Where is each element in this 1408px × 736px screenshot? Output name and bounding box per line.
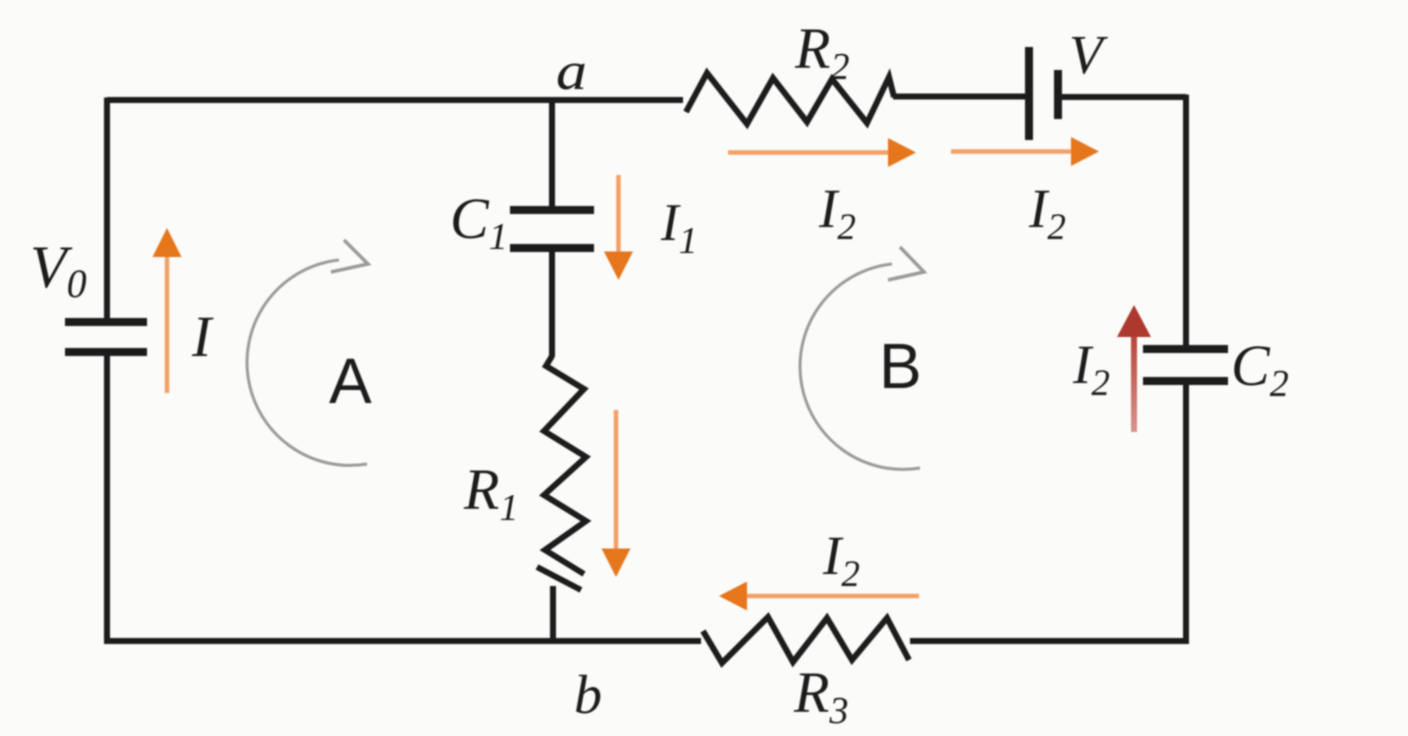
wire middle branch between C1 and R1 <box>549 251 555 357</box>
current arrow I1 shaft <box>616 175 621 252</box>
current arrow I2 (after R2) shaft <box>728 150 890 155</box>
svg-text:I1: I1 <box>660 194 698 262</box>
loop B arrowhead <box>888 247 924 280</box>
current arrow I head <box>153 228 182 257</box>
capacitor C1 bottom plate <box>510 244 594 252</box>
battery V short plate <box>1054 70 1062 119</box>
current arrow I2 (through R3) shaft <box>746 594 919 599</box>
current arrow (I1 through R1) head <box>602 549 631 578</box>
svg-text:I2: I2 <box>1072 334 1110 404</box>
svg-text:R2: R2 <box>794 16 849 88</box>
svg-text:I: I <box>191 304 214 369</box>
svg-text:C2: C2 <box>1231 333 1289 405</box>
loop B arc <box>800 264 920 469</box>
current arrow I (up) shaft <box>165 253 170 393</box>
wire left vertical lower <box>107 352 701 641</box>
wire right vertical upper <box>1183 95 1189 349</box>
svg-text:I2: I2 <box>1028 178 1066 248</box>
current arrow I2 (after V) shaft <box>951 149 1073 154</box>
battery V0 bottom plate <box>65 348 147 356</box>
current arrow (I1 through R1) shaft <box>614 410 619 549</box>
wire R2 to battery V <box>893 94 1028 100</box>
current arrow I2 (after V) head <box>1071 137 1099 166</box>
capacitor C1 top plate <box>510 206 594 214</box>
current arrow I2 (through R3) head <box>719 582 747 611</box>
wire middle branch upper (a to C1) <box>549 100 555 207</box>
loop A arrowhead <box>331 240 368 272</box>
current arrow I2 (red) head <box>1117 305 1151 337</box>
capacitor C2 top plate <box>1143 345 1228 353</box>
svg-text:V: V <box>1069 24 1108 85</box>
wire right vertical lower <box>910 382 1186 641</box>
loop A arc <box>247 260 367 465</box>
battery V long plate <box>1025 47 1033 140</box>
svg-text:a: a <box>556 41 587 101</box>
current arrow I2 (red, up through C2) shaft <box>1131 335 1137 432</box>
svg-text:I2: I2 <box>822 525 860 595</box>
wire left vertical upper <box>104 98 110 322</box>
svg-text:b: b <box>574 664 602 725</box>
battery V0 top plate <box>65 318 147 326</box>
svg-text:C1: C1 <box>450 186 508 258</box>
resistor R1 zigzag <box>544 356 586 574</box>
svg-text:V0: V0 <box>30 234 87 306</box>
wire battery V to top-right corner <box>1062 94 1186 100</box>
current arrow I1 head <box>604 252 633 281</box>
svg-text:R1: R1 <box>463 457 518 529</box>
svg-text:A: A <box>329 345 372 417</box>
svg-text:I2: I2 <box>818 178 856 248</box>
wire top-left horizontal (node a to R2 left) <box>107 97 683 103</box>
current arrow I2 (after R2) head <box>888 138 916 167</box>
resistor R1 bottom dash <box>537 567 581 590</box>
resistor R2 zigzag <box>686 73 894 124</box>
wire middle branch lower (R1 to b) <box>550 586 556 640</box>
svg-text:R3: R3 <box>793 660 848 732</box>
capacitor C2 bottom plate <box>1143 377 1228 385</box>
svg-text:B: B <box>879 330 922 402</box>
resistor R3 zigzag <box>703 617 909 663</box>
